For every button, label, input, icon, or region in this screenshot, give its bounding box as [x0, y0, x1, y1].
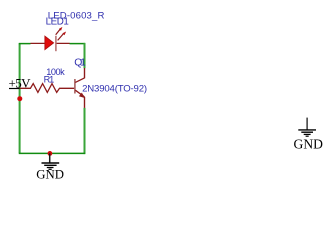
svg-text:R1: R1: [44, 75, 55, 85]
LED LED1 emission arrow 2: [58, 32, 67, 41]
resistor R1: [20, 84, 75, 93]
LED LED1 cathode bar: [55, 36, 57, 51]
wire: left vertical rail: [19, 43, 21, 153]
collector diagonal: [75, 78, 84, 83]
LED LED1 triangle: [45, 36, 54, 49]
wire: right vertical emitter segment: [84, 108, 86, 154]
wire: bottom horizontal segment: [19, 152, 85, 154]
+5V power flag: [9, 75, 32, 90]
svg-text:Q1: Q1: [74, 58, 86, 69]
ground symbol GND (right, floating): [294, 118, 324, 152]
wire: top right segment from LED cathode to collector rail: [70, 43, 86, 45]
ground symbol GND (left): [36, 153, 64, 181]
emitter pin: [84, 97, 86, 108]
collector pin: [84, 68, 86, 78]
base bar: [74, 79, 76, 94]
svg-text:GND: GND: [36, 168, 64, 182]
wire: right vertical collector segment: [84, 43, 86, 68]
transistor Q1: [75, 68, 85, 108]
svg-text:LED1: LED1: [46, 17, 69, 28]
svg-text:GND: GND: [294, 136, 324, 151]
LED LED1 pins: [31, 42, 70, 44]
wire: top left segment to LED anode: [19, 43, 31, 45]
node: junction dot on +5V rail: [17, 96, 22, 101]
svg-text:2N3904(TO-92): 2N3904(TO-92): [82, 83, 147, 94]
node: junction dot at bottom wire: [48, 151, 53, 156]
emitter diagonal: [75, 90, 84, 97]
LED LED1 emission arrow 1: [56, 27, 63, 35]
emitter arrow head: [79, 93, 85, 99]
